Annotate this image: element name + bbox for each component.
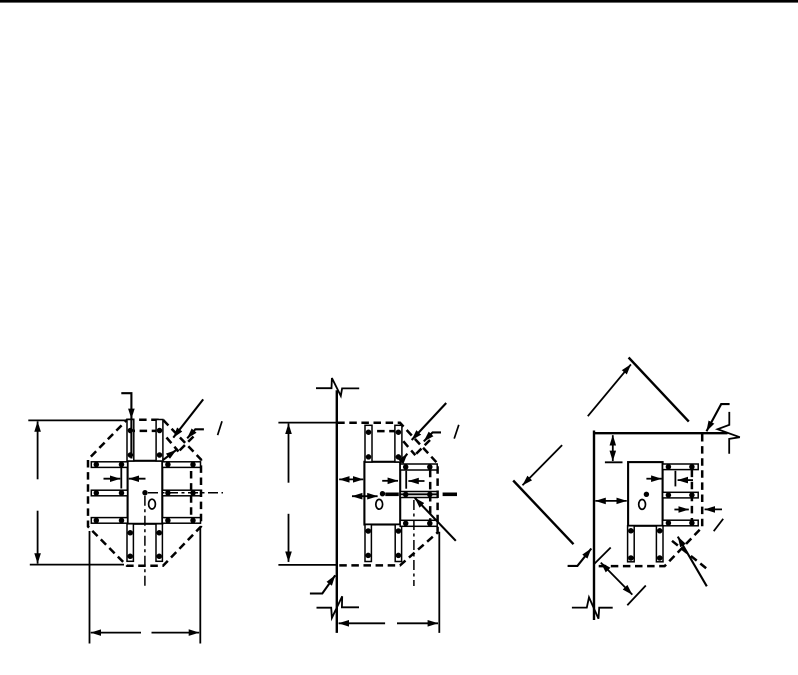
fig2 long leader to middle lead xyxy=(415,498,456,541)
fig3 right lower lead xyxy=(663,520,699,526)
fig2 top-left lead xyxy=(365,425,372,462)
fig1 center point xyxy=(142,490,147,495)
fig2 heavy center line (right part) xyxy=(443,492,457,496)
fig1 horizontal dimension line left part xyxy=(91,632,141,634)
fig3 center point xyxy=(644,492,649,497)
fig3 leader to board edge xyxy=(568,549,592,566)
fig1 bottom extension line xyxy=(30,564,124,566)
fig2 horizontal dimension line right part xyxy=(397,622,438,624)
fig2 bottom-left lead xyxy=(365,525,371,562)
fig1 leader arrowhead (down) xyxy=(128,409,135,419)
fig2 board edge line xyxy=(336,390,338,633)
fig2 top-right lead xyxy=(395,425,402,462)
fig3 diagonal dimension arrow (to upper rail) xyxy=(588,364,631,416)
fig2 bent leader with arrow xyxy=(424,432,441,441)
fig3 break symbol at bottom of vertical edge line xyxy=(572,597,613,618)
fig1 dashed bend line across top lead dots xyxy=(128,430,163,433)
fig2 horizontal dimension line left part xyxy=(339,622,386,624)
fig2 dashed bend line across top lead dots xyxy=(365,430,402,433)
fig1 package body xyxy=(128,461,163,524)
fig1 bottom-left lead xyxy=(127,524,133,562)
fig3 corner diagonal dimension arrows xyxy=(601,563,633,595)
fig1 right middle lead xyxy=(162,490,200,496)
fig1 dashed bend line through right lead outer dots xyxy=(190,471,193,523)
fig2 bottom extension line xyxy=(278,564,336,566)
fig1 right lower lead xyxy=(162,518,200,524)
fig1 top-left lead xyxy=(127,420,134,462)
fig2 double arrow at center xyxy=(352,495,378,497)
fig3 vertical board edge line xyxy=(593,431,595,621)
fig2 center line inside lead xyxy=(401,493,438,495)
fig1 gap arrow pointing left xyxy=(129,478,146,480)
fig3 long leader from lower right xyxy=(678,537,707,587)
fig1 short dashed diagonal (lower-left of X) xyxy=(167,438,179,452)
fig2 break symbol at top of edge line xyxy=(316,378,359,396)
fig2 top extension line xyxy=(278,422,336,424)
fig1 dashed octagonal clearance outline xyxy=(88,420,201,566)
fig3 horizontal board edge line xyxy=(593,432,728,434)
fig3 diagonal extension rail (lower) xyxy=(513,481,573,545)
fig2 long leader from upper right xyxy=(412,403,447,440)
fig1 right upper lead xyxy=(162,462,200,468)
fig2 slash label xyxy=(454,425,459,439)
fig1 top-right lead xyxy=(156,420,163,462)
fig1 slash label xyxy=(218,421,222,435)
fig1 gap arrow pointing right xyxy=(104,478,121,480)
fig1 horizontal dimension line right part xyxy=(152,632,200,634)
fig1 horizontal center line xyxy=(148,492,223,494)
fig3 diagonal extension rail (upper) xyxy=(629,358,689,422)
fig1 leader from body corner xyxy=(163,450,177,460)
fig3 arrow to body edge xyxy=(646,478,661,480)
fig2 right upper lead xyxy=(400,464,437,470)
fig1 letter O (origin label) xyxy=(149,499,156,509)
fig2 center point xyxy=(380,491,385,496)
fig3 slash label xyxy=(714,519,724,531)
fig3 letter O (origin label) xyxy=(639,500,646,510)
fig1 left lower lead xyxy=(91,518,127,524)
fig3 diagonal dimension arrow (to lower rail) xyxy=(523,445,563,485)
fig2 right extension line xyxy=(438,532,440,633)
fig2 vertical dimension line lower part xyxy=(288,514,290,562)
fig2 package body xyxy=(364,462,400,525)
fig1 top extension line xyxy=(28,419,125,421)
fig3 gap arrow pointing left xyxy=(678,479,693,481)
fig3 break symbol at right of top edge line xyxy=(718,412,740,454)
fig3 lead-bend witness line xyxy=(674,471,676,487)
fig2 short dashed diagonal (lower-left of X) xyxy=(403,441,415,455)
fig1 lead-bend witness line xyxy=(120,467,122,488)
page top rule xyxy=(0,0,798,3)
fig1 right extension line xyxy=(199,527,201,644)
fig1 vertical dimension line upper part xyxy=(37,421,39,479)
fig2 leader to board edge xyxy=(310,575,335,593)
fig3 right upper lead xyxy=(663,464,699,470)
fig2 vertical center line xyxy=(413,500,415,586)
fig3 right middle lead xyxy=(663,492,699,498)
fig3 corner diagonal tick (lower) xyxy=(627,586,646,606)
fig2 bottom-right lead xyxy=(395,525,401,562)
fig2 right lower lead xyxy=(400,520,437,526)
fig3 lower arrow pointing right xyxy=(674,509,688,511)
fig2 leader from body corner xyxy=(400,454,408,464)
fig1 bottom-right lead xyxy=(156,524,162,562)
fig3 package body xyxy=(628,462,663,526)
fig2 short dashed diagonal (upper-right of X) xyxy=(416,440,430,454)
fig3 corner diagonal tick (upper) xyxy=(594,548,610,564)
fig3 lower arrow pointing left xyxy=(705,508,722,510)
fig2 right middle lead xyxy=(400,492,437,498)
fig1 leader to top lead xyxy=(121,393,131,458)
fig3 bottom-left lead xyxy=(628,526,635,562)
fig3 dashed bend line through right lead outer dots xyxy=(691,470,694,524)
fig3 dashed clearance outline xyxy=(595,434,703,566)
fig1 left extension line xyxy=(89,531,91,644)
fig1 long leader from upper right xyxy=(173,399,203,437)
fig2 heavy center line (left part) xyxy=(385,492,399,496)
fig2 gap arrow pointing left xyxy=(408,480,424,482)
fig2 dashed bend line through right lead outer dots xyxy=(429,470,432,527)
fig2 letter O (origin label) xyxy=(376,499,383,509)
fig3 horizontal dimension (edge to body) xyxy=(595,500,626,502)
fig1 short dashed diagonal (upper-right of X) xyxy=(180,437,194,451)
fig2 vertical dimension line upper part xyxy=(288,424,290,483)
fig1 vertical center line xyxy=(144,496,146,586)
fig3 vertical dimension (edge to body) xyxy=(612,435,614,461)
fig3 extension tick xyxy=(605,461,623,463)
fig2 dashed clearance outline xyxy=(337,423,437,566)
fig1 bent leader with arrow xyxy=(187,429,204,438)
fig2 gap arrow pointing right xyxy=(382,480,398,482)
fig1 left upper lead xyxy=(91,462,127,468)
fig2 lead-bend witness line xyxy=(405,471,407,489)
fig3 leader to top edge corner xyxy=(707,404,730,431)
fig3 short dashed diagonal crossing outline xyxy=(672,541,709,570)
fig2 edge-to-body dimension arrows xyxy=(339,478,363,480)
fig3 bottom-right lead xyxy=(656,526,663,562)
fig2 break symbol at bottom of edge line xyxy=(317,596,360,618)
fig1 left middle lead xyxy=(91,490,127,496)
fig1 vertical dimension line lower part xyxy=(37,511,39,564)
